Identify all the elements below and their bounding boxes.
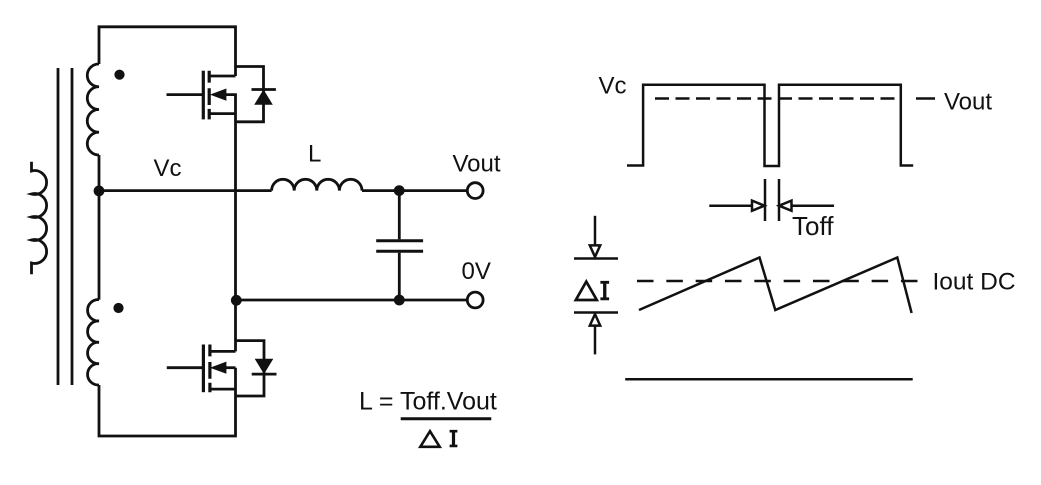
svg-text:L = Toff.Vout: L = Toff.Vout bbox=[359, 388, 497, 416]
svg-text:0V: 0V bbox=[462, 258, 491, 285]
svg-text:Vc: Vc bbox=[599, 73, 627, 100]
svg-text:L: L bbox=[308, 141, 321, 168]
svg-text:Toff: Toff bbox=[792, 211, 834, 241]
svg-text:Vc: Vc bbox=[154, 155, 182, 182]
svg-text:Vout: Vout bbox=[944, 89, 992, 116]
svg-text:Iout DC: Iout DC bbox=[933, 268, 1016, 295]
svg-text:Vout: Vout bbox=[453, 151, 501, 178]
